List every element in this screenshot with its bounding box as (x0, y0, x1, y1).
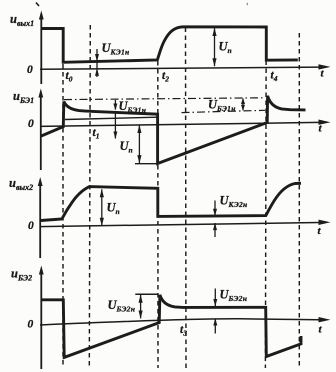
svg-text:0: 0 (27, 64, 33, 76)
wire: waveform u_vyh2 (41, 183, 301, 220)
node dim U_BE1N arrows left plot2 (113, 100, 117, 139)
svg-text:0: 0 (28, 319, 34, 331)
node dim U_BE2N arrows right plot4 (213, 289, 217, 334)
node dim U_p arrow plot1 (212, 28, 216, 67)
wire: dashed time line t4 (264, 29, 267, 369)
node axis3x: time axis plot 3 (40, 220, 331, 227)
node axis4x: time axis plot 4 (40, 317, 331, 325)
node axis1: y-axis plot 1 (39, 11, 44, 85)
node axis2x: time axis plot 2 (40, 120, 331, 127)
node axis2: y-axis plot 2 (38, 89, 43, 171)
node dim U_KE1N arrows plot1 (95, 49, 99, 77)
node dim U_KE2N arrows plot3 (213, 201, 217, 238)
wire: dash-dot level line right plot2 (182, 110, 266, 112)
wire: waveform u_be1 (41, 96, 305, 164)
node dim U_p arrow plot3 (100, 189, 104, 226)
wire: dash-dot peak level line plot2 (64, 98, 265, 100)
svg-text:0: 0 (28, 118, 34, 130)
wire: dashed time line t5 (298, 33, 300, 368)
speck top right (246, 3, 249, 5)
speck top edge (36, 3, 39, 7)
wire: thin level line under flat plot2 (65, 117, 157, 119)
node dim U_BE2N arrow left plot4 (139, 294, 143, 319)
wire: peak reference bar plot4 (135, 293, 157, 295)
wire: dashed time line t1 (89, 25, 90, 368)
wire: waveform u_vyh1 (41, 27, 298, 63)
node axis4: y-axis plot 4 (39, 266, 44, 370)
wire: waveform u_be2 (41, 295, 301, 358)
wire: dashed time line t3 (185, 28, 188, 369)
node axis3: y-axis plot 3 (38, 177, 43, 258)
node dim U_BE1N arrow right plot2 (241, 98, 245, 111)
svg-text:0: 0 (28, 220, 34, 232)
wire: dashed time line t2 (157, 61, 159, 368)
node dim U_p arrow plot2 (135, 125, 158, 164)
node axis1x: time axis plot 1 (40, 64, 331, 69)
wire: dashed time line t0 (62, 64, 64, 368)
